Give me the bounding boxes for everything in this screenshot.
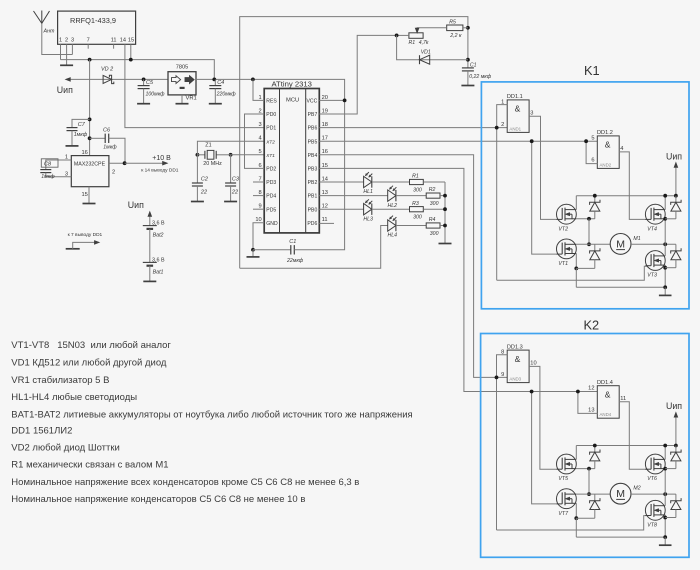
- arrow up battery: [149, 215, 151, 226]
- svg-text:VT7: VT7: [558, 511, 569, 517]
- ground under C7: [66, 145, 79, 147]
- wire HL1 to R1: [372, 181, 410, 183]
- svg-text:R5: R5: [449, 19, 456, 25]
- capacitor C2 22: [196, 155, 198, 183]
- svg-text:DD1.3: DD1.3: [507, 344, 523, 350]
- svg-text:M2: M2: [633, 486, 640, 492]
- body diode of VT6: [675, 446, 677, 453]
- wire DD1.1 output to VT2 gate: [529, 116, 556, 219]
- svg-text:300: 300: [413, 187, 422, 193]
- svg-text:MAX232CPE: MAX232CPE: [74, 162, 106, 168]
- logic gate DD1.2: [597, 136, 619, 169]
- svg-text:HL1-HL4 любые светодиоды: HL1-HL4 любые светодиоды: [11, 392, 137, 403]
- svg-text:12: 12: [588, 385, 594, 391]
- wire DD1.3 output to VT5 gate: [529, 366, 556, 469]
- node R5 right: [466, 26, 470, 30]
- svg-text:11: 11: [322, 217, 328, 223]
- svg-text:ATtiny 2313: ATtiny 2313: [271, 80, 311, 89]
- capacitor C7 1mkf: [88, 118, 92, 122]
- body diode of VT2: [594, 196, 596, 203]
- svg-text:HL3: HL3: [363, 216, 373, 222]
- svg-text:1мкф: 1мкф: [103, 144, 117, 150]
- svg-text:PB3: PB3: [308, 167, 318, 173]
- capacitor C5 100mkf: [142, 78, 146, 82]
- wire Bat2 to Bat1: [149, 229, 151, 263]
- svg-text:GND: GND: [266, 221, 278, 227]
- wire PB2 to HL1: [319, 181, 363, 183]
- svg-text:HL4: HL4: [388, 233, 398, 239]
- wire DD1.2 output to VT4 gate: [619, 152, 647, 220]
- transistor VT4: [645, 204, 665, 224]
- ground symbol bridge: [664, 537, 666, 545]
- body diode of VT3: [675, 244, 677, 251]
- chip MAX232CPE: [71, 156, 109, 187]
- svg-text:+10 В: +10 В: [152, 155, 171, 162]
- antenna Ант: [34, 11, 42, 23]
- wire PB0 to HL3: [319, 208, 363, 210]
- ground under C5: [137, 103, 150, 105]
- wire HL2 to R2: [396, 195, 426, 197]
- svg-text:VT2: VT2: [558, 226, 568, 232]
- wire VT8 drain: [664, 494, 666, 506]
- wire DD1.4 inputs tied: [578, 392, 597, 414]
- motor M2: [610, 483, 631, 504]
- wire column to C7/C6/MAX232: [89, 60, 91, 156]
- wire VT4 source to motor node: [664, 219, 666, 245]
- svg-text:4: 4: [620, 146, 623, 152]
- node rail-C7 column: [88, 58, 92, 62]
- svg-text:VT1: VT1: [558, 261, 568, 267]
- wire motor row right: [631, 493, 676, 495]
- capacitor C6 1mkf: [88, 136, 92, 140]
- wire PB1 to HL2: [319, 195, 387, 197]
- capacitor C8 boxed label: [41, 159, 58, 167]
- svg-text:13: 13: [588, 408, 594, 414]
- svg-text:AND1: AND1: [509, 126, 521, 131]
- wire PB3 down to K2: [319, 168, 597, 391]
- radio module RRFQ1-433,9: [58, 11, 136, 44]
- svg-text:15: 15: [81, 192, 87, 198]
- svg-text:1мкф: 1мкф: [74, 132, 88, 138]
- svg-text:DD1 1561ЛИ2: DD1 1561ЛИ2: [11, 425, 72, 436]
- svg-text:3: 3: [65, 171, 68, 177]
- svg-text:Bat2: Bat2: [153, 233, 164, 239]
- wire PB3 branch to VT7 gate: [532, 392, 557, 504]
- svg-text:3: 3: [259, 122, 262, 128]
- pin stub PD3: [253, 181, 264, 183]
- wire pin 14 to PD1: [125, 44, 264, 127]
- pin stub 1: [60, 44, 62, 59]
- body diode of VT5: [594, 446, 596, 453]
- resistor R1 300: [410, 179, 424, 184]
- LED HL1: [364, 176, 372, 187]
- wire PD0 pin2 to PD2 pin6: [245, 114, 265, 168]
- svg-text:3: 3: [530, 110, 533, 116]
- svg-text:300: 300: [413, 215, 422, 221]
- wire VCC pin20: [319, 99, 344, 101]
- wire long loop to HL4: [240, 226, 388, 269]
- node rail pin15: [129, 58, 133, 62]
- wire VT3 drain: [664, 244, 666, 256]
- pin 2 wire to +10V: [109, 162, 125, 164]
- ground under C3: [224, 201, 237, 203]
- pin stub PD4: [253, 195, 264, 197]
- svg-text:R1: R1: [409, 40, 416, 46]
- svg-text:Uип: Uип: [666, 151, 682, 161]
- svg-text:0,22 мкф: 0,22 мкф: [469, 74, 492, 80]
- svg-text:Uип: Uип: [666, 401, 682, 411]
- svg-text:PB1: PB1: [308, 194, 318, 200]
- wire VT5 drain to rail: [575, 446, 577, 460]
- capacitor C1 22mkf: [253, 249, 291, 251]
- svg-text:MCU: MCU: [286, 97, 299, 103]
- diode VD1: [420, 55, 430, 64]
- svg-text:1: 1: [65, 155, 68, 161]
- svg-text:PD1: PD1: [266, 126, 276, 132]
- svg-text:5: 5: [259, 149, 262, 155]
- pin 1 wire and label: [46, 160, 72, 169]
- svg-text:&: &: [605, 140, 611, 150]
- pin stub 7: [87, 44, 89, 48]
- body diode of VT7: [594, 494, 596, 501]
- svg-text:VR1: VR1: [186, 96, 197, 102]
- svg-text:16: 16: [81, 150, 87, 156]
- svg-text:&: &: [515, 104, 521, 114]
- wire 7805 output: [196, 79, 345, 100]
- svg-text:R3: R3: [412, 201, 419, 207]
- svg-text:14: 14: [120, 38, 126, 44]
- svg-text:Uип: Uип: [57, 85, 73, 95]
- diode VD2: [103, 75, 112, 83]
- LED HL4: [388, 220, 396, 231]
- svg-text:DD1.2: DD1.2: [597, 130, 613, 136]
- arrow Uip left: [65, 78, 70, 82]
- svg-text:C8: C8: [44, 161, 52, 167]
- wire GND pin10: [253, 223, 264, 250]
- ground under pin 2: [60, 64, 73, 66]
- svg-text:AND3: AND3: [509, 377, 521, 382]
- svg-text:AND2: AND2: [600, 162, 612, 167]
- svg-text:5: 5: [591, 136, 594, 142]
- svg-text:20 MHz: 20 MHz: [203, 161, 222, 167]
- transistor VT2: [557, 204, 577, 224]
- wire ground row: [576, 286, 665, 288]
- svg-text:PD0: PD0: [266, 112, 276, 118]
- body diode of VT1: [594, 244, 596, 251]
- svg-text:R4: R4: [429, 217, 436, 223]
- resistor R4 300: [426, 223, 440, 228]
- svg-text:11: 11: [111, 38, 117, 44]
- svg-text:2: 2: [501, 122, 504, 128]
- node RES branch: [251, 78, 255, 82]
- capacitor C4 220mkf: [212, 78, 216, 82]
- svg-text:100мкф: 100мкф: [146, 92, 166, 98]
- svg-text:PB6: PB6: [308, 126, 318, 132]
- LED HL3: [364, 204, 372, 215]
- pin stub 2 to ground: [66, 44, 68, 65]
- transistor VT3: [645, 251, 665, 271]
- svg-text:RRFQ1-433,9: RRFQ1-433,9: [70, 16, 116, 25]
- wire DD1.4 output to VT6 gate: [619, 402, 647, 470]
- ground under Bat1: [149, 266, 151, 281]
- svg-text:VD1: VD1: [421, 49, 431, 55]
- svg-text:3: 3: [71, 38, 74, 44]
- svg-text:1мкф: 1мкф: [41, 174, 55, 180]
- wire VT3 source to ground: [664, 265, 666, 287]
- logic gate DD1.4: [597, 386, 619, 419]
- transistor VT1: [557, 239, 577, 259]
- pin stub PD6: [319, 222, 334, 224]
- transistor VT6: [645, 454, 665, 474]
- wire R1 left: [397, 34, 409, 36]
- svg-text:Номинальное напряжение всех ко: Номинальное напряжение всех конденсаторо…: [11, 477, 359, 488]
- ground under resistor bus: [439, 243, 452, 245]
- svg-text:&: &: [605, 390, 611, 400]
- wire VT2 drain to rail: [575, 196, 577, 210]
- svg-text:RES: RES: [266, 99, 277, 105]
- ground under C1: [461, 85, 474, 87]
- wire VT6 source to motor node: [664, 469, 666, 495]
- wire VT7 source to ground row: [575, 503, 577, 518]
- resistor R3 300: [410, 207, 424, 212]
- power Uip arrow: [675, 165, 677, 196]
- wire XT1 pin5: [231, 154, 265, 156]
- svg-text:HL2: HL2: [388, 203, 398, 209]
- svg-text:VT3: VT3: [647, 273, 657, 279]
- svg-text:Номинальное напряжение конденс: Номинальное напряжение конденсаторов C5 …: [11, 494, 305, 505]
- svg-text:VT6: VT6: [647, 476, 657, 482]
- svg-text:к 14 выводу DD1: к 14 выводу DD1: [141, 167, 179, 173]
- power Uip arrow: [675, 415, 677, 446]
- logic gate DD1.1: [507, 100, 529, 132]
- svg-text:DD1.1: DD1.1: [507, 94, 523, 100]
- svg-text:22: 22: [200, 190, 207, 196]
- potentiometer R1 4.7k wiper arrow: [415, 28, 419, 33]
- wire VT1 source to ground row: [575, 254, 577, 269]
- svg-text:VCC: VCC: [307, 99, 318, 105]
- wire PB6 to DD1.1: [319, 127, 507, 129]
- svg-text:DD1.4: DD1.4: [597, 380, 613, 386]
- crystal Z1 20MHz: [196, 153, 200, 157]
- wire top rail M2: [576, 445, 676, 447]
- svg-text:2: 2: [65, 38, 68, 44]
- wire 5V rail: [61, 60, 215, 80]
- wire top rail M1: [576, 195, 676, 197]
- wire DD1.3 inputs tied: [497, 355, 508, 530]
- ground under MCU: [247, 256, 260, 258]
- ground under C2: [191, 201, 204, 203]
- wire to VD1: [397, 35, 468, 59]
- svg-text:C6: C6: [103, 128, 111, 134]
- svg-text:7: 7: [87, 38, 90, 44]
- svg-text:220мкф: 220мкф: [216, 92, 237, 98]
- svg-text:15: 15: [128, 38, 134, 44]
- svg-text:4,7k: 4,7k: [419, 40, 429, 46]
- svg-text:Bat1: Bat1: [153, 270, 164, 276]
- motor M1: [610, 234, 631, 255]
- body diode of VT8: [675, 494, 677, 501]
- svg-text:300: 300: [430, 201, 439, 207]
- svg-text:VT1-VT8 15N03 или любой ана: VT1-VT8 15N03 или любой аналог: [11, 340, 171, 351]
- svg-text:11: 11: [620, 396, 626, 402]
- resistor R2 300: [426, 193, 440, 198]
- svg-text:PD4: PD4: [266, 194, 276, 200]
- svg-text:22: 22: [231, 190, 238, 196]
- transistor VT7: [557, 489, 577, 509]
- svg-text:C1: C1: [289, 239, 296, 245]
- wire VT2 source node: [576, 218, 595, 220]
- svg-text:PD3: PD3: [266, 180, 276, 186]
- wire top link: [240, 17, 468, 269]
- logic gate DD1.3: [507, 350, 529, 383]
- svg-text:6: 6: [591, 158, 594, 164]
- wire PB7 to R1 pot: [319, 35, 396, 114]
- svg-text:AND4: AND4: [600, 412, 612, 417]
- svg-text:HL1: HL1: [363, 189, 373, 195]
- svg-text:2: 2: [112, 169, 115, 175]
- wire resistor bus to ground: [444, 182, 446, 243]
- svg-text:R1 механически связан с валом: R1 механически связан с валом М1: [11, 459, 168, 470]
- wire motor row right: [631, 243, 676, 245]
- wire HL4 to R4: [396, 225, 426, 227]
- wire HL3 to R3: [372, 208, 410, 210]
- transistor VT8: [645, 500, 665, 520]
- svg-text:22мкф: 22мкф: [286, 258, 304, 264]
- svg-text:PD5: PD5: [266, 207, 276, 213]
- wire RES pin1 to 5V: [253, 79, 264, 100]
- svg-text:PB2: PB2: [308, 180, 318, 186]
- wire ground row: [576, 536, 665, 538]
- svg-text:Uип: Uип: [128, 200, 144, 210]
- wire PB4 down to K2: [319, 155, 507, 378]
- ground under VR1: [181, 95, 183, 103]
- svg-text:VD 2: VD 2: [101, 66, 113, 72]
- svg-text:3,6 В: 3,6 В: [152, 220, 165, 226]
- wire VT8 source to ground: [664, 515, 666, 537]
- wire VT6 drain to rail: [664, 446, 666, 460]
- voltage regulator VR1 7805: [168, 72, 196, 95]
- svg-text:K2: K2: [584, 318, 600, 333]
- wire VT5 source node: [576, 468, 595, 470]
- svg-text:C7: C7: [78, 122, 86, 128]
- svg-text:PB5: PB5: [308, 139, 318, 145]
- svg-text:C5: C5: [146, 80, 154, 86]
- svg-text:VT8: VT8: [647, 523, 657, 529]
- svg-text:XT1: XT1: [265, 153, 275, 158]
- svg-text:R1: R1: [412, 174, 419, 180]
- svg-text:VT5: VT5: [558, 476, 568, 482]
- ground under C4: [209, 103, 222, 105]
- wire VT4 drain to rail: [664, 196, 666, 210]
- node VD1 C1: [466, 58, 470, 62]
- svg-text:C2: C2: [201, 177, 208, 183]
- svg-text:XT2: XT2: [265, 139, 275, 144]
- block frame K2: [481, 334, 689, 558]
- svg-text:R2: R2: [429, 187, 436, 193]
- wire PB6 branch to VT3 gate: [497, 266, 647, 280]
- svg-text:М: М: [616, 238, 625, 250]
- transistor VT5: [557, 454, 577, 474]
- svg-text:к 7 выводу DD1: к 7 выводу DD1: [68, 232, 103, 238]
- wire PB4 branch to VT8 gate: [497, 516, 648, 530]
- wire PB5 to DD1.2: [319, 140, 597, 142]
- wire motor row left: [576, 243, 610, 245]
- pin stub 11: [113, 44, 115, 48]
- svg-text:М: М: [616, 488, 625, 500]
- svg-text:C4: C4: [217, 80, 224, 86]
- pin 15 wire to ground: [88, 187, 90, 203]
- svg-text:9: 9: [501, 372, 504, 378]
- svg-text:PD6: PD6: [307, 221, 317, 227]
- svg-text:C3: C3: [232, 177, 240, 183]
- svg-text:VD1 КД512 или любой другой дио: VD1 КД512 или любой другой диод: [11, 357, 167, 368]
- pin stub PD5: [253, 208, 264, 210]
- svg-text:PB4: PB4: [308, 153, 318, 159]
- svg-text:10: 10: [530, 361, 536, 367]
- svg-text:2,2 к: 2,2 к: [449, 33, 462, 39]
- svg-text:4: 4: [259, 136, 262, 142]
- wire PB5 branch to VT1 gate: [532, 141, 557, 254]
- battery Bat2 3.6V: [143, 225, 157, 227]
- MCU ATtiny 2313: [264, 89, 319, 233]
- svg-text:Ант: Ант: [43, 29, 55, 35]
- svg-text:Z1: Z1: [205, 142, 211, 148]
- capacitor C3 22: [230, 155, 232, 183]
- pin stub 15: [130, 44, 132, 59]
- svg-text:PB0: PB0: [308, 207, 318, 213]
- wire antenna feed to pin 3: [42, 23, 73, 54]
- svg-text:PD2: PD2: [266, 167, 276, 173]
- svg-text:VR1 стабилизатор 5 В: VR1 стабилизатор 5 В: [11, 375, 109, 386]
- svg-text:7805: 7805: [176, 65, 188, 71]
- svg-text:VD2 любой диод Шоттки: VD2 любой диод Шоттки: [11, 442, 120, 453]
- wire motor row left: [576, 493, 610, 495]
- wire DD1.1 inputs tied: [497, 105, 508, 281]
- ground symbol bridge: [664, 287, 666, 295]
- svg-text:1: 1: [59, 38, 62, 44]
- LED HL2: [388, 190, 396, 201]
- svg-text:300: 300: [430, 231, 439, 237]
- wire DD1.2 inputs tied: [586, 141, 597, 163]
- svg-text:BAT1-BAT2 литиевые аккумулятор: BAT1-BAT2 литиевые аккумуляторы от ноутб…: [11, 410, 412, 421]
- svg-text:M1: M1: [633, 236, 640, 242]
- wire Uip main line: [67, 78, 168, 80]
- wire XT2 pin4: [197, 141, 264, 155]
- body diode of VT4: [675, 196, 677, 203]
- block frame K1: [481, 82, 689, 309]
- svg-text:PB7: PB7: [308, 112, 318, 118]
- pin stub 3: [71, 44, 73, 54]
- svg-text:K1: K1: [584, 63, 600, 78]
- svg-text:&: &: [515, 354, 521, 364]
- svg-text:VT4: VT4: [647, 226, 657, 232]
- resistor R5 2.2k: [447, 25, 463, 31]
